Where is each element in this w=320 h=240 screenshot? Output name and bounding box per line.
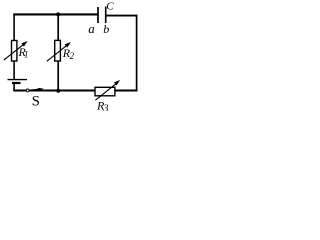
svg-text:b: b	[103, 22, 109, 36]
svg-text:S: S	[32, 93, 40, 109]
switch S blade	[30, 89, 41, 90]
wire left rail lower	[13, 83, 15, 92]
resistor R3 arrow	[95, 80, 120, 100]
capacitor C right plate	[105, 7, 107, 24]
wire top rail left segment	[13, 13, 97, 15]
resistor R1 arrow	[4, 41, 28, 60]
svg-text:1: 1	[24, 50, 29, 60]
svg-text:2: 2	[70, 51, 75, 61]
node junction dot top	[56, 12, 60, 16]
battery short plate	[12, 82, 21, 84]
svg-text:C: C	[106, 0, 114, 12]
svg-text:a: a	[88, 21, 95, 36]
wire left rail	[13, 13, 15, 80]
resistor R3 box	[95, 87, 115, 96]
switch S circle	[26, 89, 29, 92]
resistor R1 box	[12, 41, 17, 62]
wire top rail right segment	[106, 15, 137, 17]
wire R2 branch vertical	[57, 14, 59, 90]
wire right rail	[136, 15, 138, 92]
resistor R2 box	[55, 40, 61, 61]
resistor R2 arrow	[47, 42, 71, 61]
node junction dot bottom	[56, 89, 60, 93]
switch S blade arrowhead	[38, 88, 44, 91]
svg-text:3: 3	[103, 103, 109, 111]
capacitor C left plate	[97, 7, 99, 23]
wire bottom rail	[13, 90, 137, 92]
battery long plate	[8, 79, 28, 81]
